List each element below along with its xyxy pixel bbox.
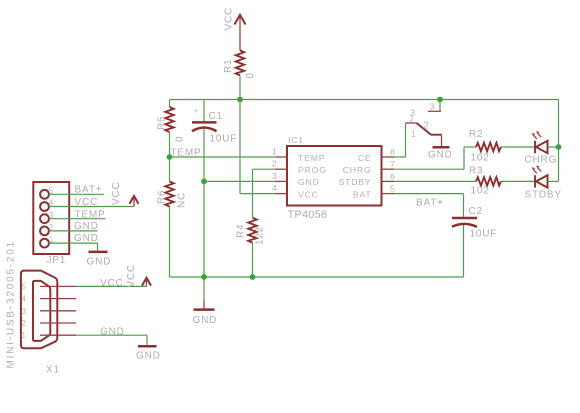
ground symbol (bottom middle): [193, 277, 218, 326]
svg-text:122: 122: [255, 226, 266, 245]
svg-text:STDBY: STDBY: [525, 190, 562, 201]
resistor R2: [469, 129, 501, 164]
svg-text:R2: R2: [469, 129, 483, 140]
wire TEMP stub (JP1 pin3): [49, 218, 106, 220]
connector JP1: [33, 182, 69, 266]
pin 6: [382, 180, 395, 182]
pin 2: [275, 168, 287, 170]
wire right rail down to LEDs: [558, 100, 560, 182]
svg-text:NC: NC: [177, 192, 188, 208]
svg-text:7: 7: [390, 159, 396, 169]
svg-text:BAT: BAT: [353, 189, 372, 199]
svg-text:0: 0: [175, 136, 186, 142]
svg-text:GND: GND: [87, 257, 112, 268]
supply VCC (JP1): [111, 181, 139, 206]
pin 8: [382, 156, 395, 158]
svg-text:R3: R3: [469, 165, 483, 176]
svg-text:GND: GND: [428, 150, 453, 161]
wire bottom GND rail: [170, 276, 464, 278]
svg-text:4: 4: [272, 183, 278, 193]
svg-text:1: 1: [411, 130, 416, 139]
node junction R1/VCC rail: [237, 97, 243, 103]
svg-text:IC1: IC1: [288, 135, 304, 145]
svg-text:10UF: 10UF: [210, 134, 238, 145]
node junction CHRG LED / right rail: [556, 144, 562, 150]
svg-text:TP4056: TP4056: [288, 209, 328, 221]
svg-text:4: 4: [22, 295, 27, 304]
wire BAT+ stub (JP1 pin5): [49, 193, 104, 195]
node TEMP: [167, 154, 173, 160]
wire GND (X1 pin1): [76, 334, 147, 336]
wire LED2 to rail: [548, 180, 559, 182]
svg-text:VCC: VCC: [100, 278, 124, 289]
ground symbol (jumper): [428, 147, 453, 160]
node junction GND pin3 / C1: [201, 179, 207, 185]
wire VCC (X1 pin5): [76, 285, 147, 287]
svg-text:VCC: VCC: [126, 264, 137, 288]
capacitor C1: [192, 100, 237, 278]
pin 4 stub: [40, 298, 76, 300]
svg-text:2: 2: [272, 159, 278, 169]
node junction R4 / GND rail: [250, 274, 256, 280]
pin 3: [275, 180, 287, 182]
svg-text:10UF: 10UF: [470, 229, 498, 240]
svg-text:BAT+: BAT+: [75, 185, 103, 196]
svg-text:6: 6: [390, 171, 396, 181]
wire top rail: [170, 99, 559, 101]
svg-text:PROG: PROG: [298, 165, 327, 175]
svg-text:MINI-USB-32005-201: MINI-USB-32005-201: [5, 240, 16, 369]
supply VCC (X1): [126, 264, 151, 288]
resistor R5: [157, 100, 186, 158]
capacitor C2: [438, 198, 498, 277]
pin 1: [275, 156, 287, 158]
svg-text:GND: GND: [74, 221, 99, 232]
svg-text:2: 2: [409, 115, 414, 124]
svg-text:VCC: VCC: [224, 7, 235, 31]
svg-text:VCC: VCC: [75, 197, 99, 208]
wire VCC (JP1 pin4): [49, 206, 134, 208]
svg-text:VCC: VCC: [111, 181, 122, 205]
svg-text:GND: GND: [298, 177, 320, 187]
wire pin4 VCC: [239, 100, 241, 194]
LED CHRG: [525, 131, 558, 165]
pin 1 stub: [40, 334, 76, 336]
svg-text:1: 1: [272, 147, 278, 157]
svg-text:R4: R4: [236, 224, 247, 238]
wire pin7 CHRG to R2: [394, 147, 476, 169]
wire TEMP net to pin 1: [170, 156, 276, 158]
svg-text:5: 5: [390, 184, 396, 194]
svg-text:+: +: [438, 198, 443, 207]
svg-text:3: 3: [22, 307, 27, 316]
svg-text:CHRG: CHRG: [343, 165, 372, 175]
resistor R6: [157, 157, 188, 277]
svg-text:102: 102: [471, 185, 490, 196]
wire GND (JP1 pin1): [49, 242, 98, 244]
svg-text:5: 5: [22, 282, 27, 291]
svg-text:GND: GND: [74, 233, 99, 244]
IC IC1 TP4056: [287, 135, 382, 221]
resistor R3: [469, 165, 501, 196]
svg-text:0: 0: [245, 72, 256, 78]
pin 7: [382, 168, 395, 170]
resistor R1: [223, 50, 256, 78]
pin 3 stub: [40, 310, 76, 312]
svg-text:CE: CE: [358, 153, 372, 163]
svg-text:X1: X1: [46, 365, 60, 376]
svg-text:2: 2: [423, 121, 429, 132]
svg-text:GND: GND: [100, 326, 125, 337]
svg-text:R6: R6: [157, 190, 168, 204]
svg-text:JP1: JP1: [47, 255, 67, 266]
wire R2 to LED1: [501, 146, 535, 148]
pin 2 stub: [40, 322, 76, 324]
pin 4: [275, 193, 287, 195]
svg-text:VCC: VCC: [298, 189, 319, 199]
pin 5: [382, 193, 395, 195]
svg-text:CHRG: CHRG: [525, 155, 558, 166]
jumper S1 (3-position solder jumper): [406, 100, 442, 147]
wire pin2 PROG: [253, 168, 276, 170]
wire pin6 STDBY to R3: [394, 180, 476, 182]
svg-text:STDBY: STDBY: [339, 177, 372, 187]
svg-text:R5: R5: [157, 116, 168, 130]
svg-text:TEMP: TEMP: [298, 153, 325, 163]
wire pin3 GND: [204, 180, 275, 182]
wire LED1 to rail: [548, 146, 559, 148]
ground symbol (X1): [136, 346, 161, 361]
wire CE pin8 to jumper: [394, 156, 406, 158]
svg-text:TEMP: TEMP: [75, 210, 106, 221]
resistor R4: [236, 218, 266, 277]
supply VCC (top, above R1): [224, 7, 246, 50]
node junction C1 line / GND rail: [201, 274, 207, 280]
svg-text:+: +: [194, 107, 199, 116]
svg-text:C1: C1: [209, 111, 223, 122]
svg-text:3: 3: [430, 102, 436, 112]
ground symbol (JP1): [87, 252, 112, 268]
svg-text:GND: GND: [136, 351, 161, 362]
svg-text:R1: R1: [223, 59, 234, 73]
svg-text:8: 8: [390, 147, 396, 157]
wire R3 to LED2: [501, 180, 535, 182]
wire pin5 BAT to C2: [394, 194, 464, 217]
pin 5 stub: [40, 285, 76, 287]
svg-text:102: 102: [471, 153, 490, 164]
svg-text:C2: C2: [469, 206, 483, 217]
connector X1 mini-USB: [21, 271, 76, 376]
svg-text:1: 1: [22, 331, 27, 340]
node junction jumper/VCC rail: [437, 97, 443, 103]
svg-text:GND: GND: [193, 315, 218, 326]
wire R1 to top rail: [239, 75, 241, 99]
svg-text:3: 3: [272, 171, 278, 181]
wire GND stub (JP1 pin2): [49, 230, 98, 232]
LED STDBY: [525, 166, 562, 201]
svg-text:2: 2: [22, 319, 27, 328]
